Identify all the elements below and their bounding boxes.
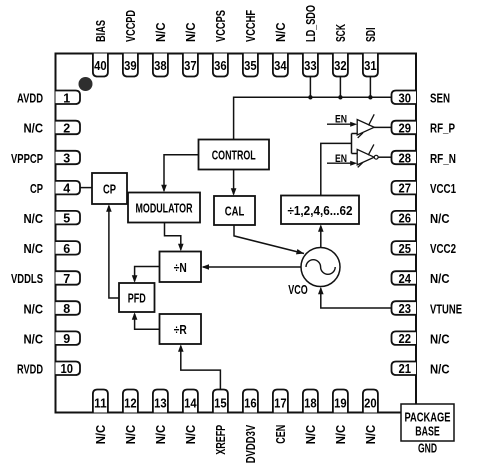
svg-text:RF_N: RF_N bbox=[430, 152, 456, 166]
wire: VCO output to divide-by-N bbox=[202, 264, 302, 270]
pin 5 (N/C) left bbox=[24, 211, 81, 226]
pin 27 (VCC1) right bbox=[392, 181, 457, 196]
pin 7 (VDDLS) left bbox=[11, 271, 80, 286]
svg-text:AVDD: AVDD bbox=[17, 92, 43, 106]
pin 16 (DVDD3V) bottom bbox=[243, 390, 258, 464]
svg-text:VCCPS: VCCPS bbox=[214, 10, 228, 42]
divide-by-N block bbox=[160, 252, 202, 283]
pin 13 (N/C) bottom bbox=[153, 390, 168, 445]
pin 38 (N/C) top bbox=[153, 23, 168, 77]
svg-text:16: 16 bbox=[244, 397, 257, 411]
pin 21 (N/C) right bbox=[392, 362, 450, 377]
pin 10 (RVDD) left bbox=[17, 362, 80, 377]
svg-text:SDI: SDI bbox=[364, 28, 378, 43]
svg-text:3: 3 bbox=[63, 152, 70, 166]
svg-text:RF_P: RF_P bbox=[430, 122, 455, 136]
svg-text:N/C: N/C bbox=[24, 332, 44, 346]
wire: serial bus from pins 33/32/31 to SEN pin 30 bbox=[234, 77, 392, 140]
svg-text:17: 17 bbox=[274, 397, 287, 411]
svg-text:21: 21 bbox=[399, 362, 412, 376]
svg-text:VDDLS: VDDLS bbox=[11, 272, 43, 286]
pin 35 (VCCHF) top bbox=[243, 10, 258, 77]
pin 24 (N/C) right bbox=[392, 271, 450, 286]
svg-text:XREFP: XREFP bbox=[214, 425, 228, 455]
svg-text:CP: CP bbox=[30, 182, 43, 196]
pin 1 indicator dot bbox=[79, 77, 93, 91]
svg-text:SEN: SEN bbox=[430, 92, 450, 106]
pin 1 (AVDD) left bbox=[17, 91, 80, 106]
svg-text:N/C: N/C bbox=[430, 212, 450, 226]
svg-text:N/C: N/C bbox=[94, 425, 108, 445]
svg-text:30: 30 bbox=[399, 91, 412, 105]
svg-text:25: 25 bbox=[399, 242, 412, 256]
svg-text:19: 19 bbox=[334, 397, 347, 411]
svg-text:VPPCP: VPPCP bbox=[11, 152, 43, 166]
svg-text:37: 37 bbox=[184, 59, 197, 73]
wire: divider to RF buffers bbox=[321, 134, 357, 196]
wire: RF_N buffer output to pin 28 bbox=[378, 156, 391, 158]
svg-text:÷R: ÷R bbox=[174, 323, 187, 337]
wire: pin 15 XREFP to divide-by-R bbox=[178, 344, 220, 389]
wire: CAL to VCO bbox=[234, 225, 304, 254]
svg-text:4: 4 bbox=[63, 182, 70, 196]
svg-text:N/C: N/C bbox=[274, 23, 288, 43]
svg-text:VCC1: VCC1 bbox=[430, 182, 456, 196]
output divider block (divide by 1,2,4,6...62) bbox=[281, 196, 359, 225]
svg-text:29: 29 bbox=[399, 121, 412, 135]
pin 22 (N/C) right bbox=[392, 331, 450, 346]
RF_P output buffer (triangle with enable slashes) bbox=[357, 114, 374, 138]
pin 32 (SCK) top bbox=[333, 24, 348, 77]
pin 3 (VPPCP) left bbox=[11, 151, 80, 166]
VCO oscillator circle bbox=[301, 248, 340, 287]
pin 29 (RF_P) right bbox=[392, 121, 456, 136]
svg-text:8: 8 bbox=[63, 302, 70, 316]
svg-text:VCC2: VCC2 bbox=[430, 242, 456, 256]
pin 6 (N/C) left bbox=[24, 241, 81, 256]
wire: pin 4 CP to charge-pump block bbox=[80, 187, 92, 189]
svg-text:20: 20 bbox=[364, 397, 377, 411]
svg-text:N/C: N/C bbox=[364, 425, 378, 445]
svg-text:BASE: BASE bbox=[415, 425, 440, 439]
wire: MODULATOR to divide-by-N bbox=[165, 223, 184, 252]
svg-text:LD_SDO: LD_SDO bbox=[304, 5, 318, 42]
svg-text:N/C: N/C bbox=[430, 332, 450, 346]
wire: pin 23 VTUNE to VCO bbox=[318, 287, 392, 308]
svg-text:RVDD: RVDD bbox=[17, 363, 43, 377]
svg-text:N/C: N/C bbox=[154, 23, 168, 43]
svg-text:BIAS: BIAS bbox=[94, 20, 108, 42]
pin 15 (XREFP) bottom bbox=[213, 390, 228, 455]
pin 39 (VCCPD) top bbox=[123, 10, 138, 77]
svg-text:24: 24 bbox=[399, 272, 412, 286]
control block U-CONTROL bbox=[199, 140, 270, 170]
svg-text:CAL: CAL bbox=[225, 205, 245, 219]
pin 12 (N/C) bottom bbox=[123, 390, 138, 445]
svg-text:PACKAGE: PACKAGE bbox=[405, 411, 451, 425]
svg-text:N/C: N/C bbox=[184, 23, 198, 43]
svg-text:N/C: N/C bbox=[154, 425, 168, 445]
svg-text:14: 14 bbox=[184, 397, 197, 411]
svg-text:40: 40 bbox=[94, 59, 107, 73]
junction dot below pin 33 bbox=[308, 95, 312, 99]
pin 17 (CEN) bottom bbox=[273, 390, 288, 444]
pin 2 (N/C) left bbox=[24, 121, 81, 136]
pin 28 (RF_N) right bbox=[392, 151, 457, 166]
pin 19 (N/C) bottom bbox=[333, 390, 348, 445]
modulator block bbox=[128, 193, 200, 223]
svg-text:VCCPD: VCCPD bbox=[124, 10, 138, 42]
RF_N output buffer (inverting triangle with enable slashes) bbox=[357, 144, 378, 167]
wire: VCO to output divider bbox=[318, 224, 324, 248]
svg-text:12: 12 bbox=[124, 397, 137, 411]
pin 31 (SDI) top bbox=[363, 28, 378, 77]
svg-text:34: 34 bbox=[274, 59, 287, 73]
pin 26 (N/C) right bbox=[392, 211, 450, 226]
svg-text:MODULATOR: MODULATOR bbox=[136, 202, 193, 216]
pin 33 (LD_SDO) top bbox=[303, 5, 318, 77]
junction dot below pin 31 bbox=[368, 95, 372, 99]
GND label of package base bbox=[418, 442, 437, 456]
pin 18 (N/C) bottom bbox=[303, 390, 318, 445]
PACKAGE BASE pad (GND) bbox=[401, 404, 454, 441]
svg-text:38: 38 bbox=[154, 59, 167, 73]
pin 25 (VCC2) right bbox=[392, 241, 457, 256]
charge pump CP bbox=[92, 173, 127, 204]
svg-text:23: 23 bbox=[399, 302, 412, 316]
svg-text:N/C: N/C bbox=[24, 302, 44, 316]
EN enable input of RF_N buffer bbox=[327, 153, 357, 166]
svg-text:GND: GND bbox=[418, 442, 437, 456]
wire: divide-by-R to PFD bbox=[132, 312, 160, 329]
VCO label bbox=[288, 283, 308, 297]
svg-text:15: 15 bbox=[214, 397, 227, 411]
svg-text:N/C: N/C bbox=[184, 425, 198, 445]
pin 30 (SEN) right bbox=[392, 91, 451, 106]
svg-text:6: 6 bbox=[63, 242, 70, 256]
pin 14 (N/C) bottom bbox=[183, 390, 198, 445]
wire: PFD to charge pump CP bbox=[106, 204, 119, 298]
wire: CONTROL to MODULATOR bbox=[161, 155, 198, 193]
svg-text:N/C: N/C bbox=[124, 425, 138, 445]
pin 40 (BIAS) top bbox=[93, 20, 108, 77]
svg-text:31: 31 bbox=[364, 59, 377, 73]
svg-text:PFD: PFD bbox=[128, 292, 146, 306]
svg-text:CONTROL: CONTROL bbox=[212, 149, 256, 163]
svg-text:27: 27 bbox=[399, 182, 412, 196]
svg-text:N/C: N/C bbox=[304, 425, 318, 445]
EN enable input of RF_P buffer bbox=[327, 114, 357, 127]
svg-text:36: 36 bbox=[214, 59, 227, 73]
svg-text:32: 32 bbox=[334, 59, 347, 73]
svg-text:VCO: VCO bbox=[288, 283, 308, 297]
svg-text:CP: CP bbox=[103, 183, 116, 197]
svg-text:N/C: N/C bbox=[430, 363, 450, 377]
pin 8 (N/C) left bbox=[24, 301, 81, 316]
wire: RF_P buffer output to pin 29 bbox=[374, 126, 392, 128]
svg-text:N/C: N/C bbox=[24, 242, 44, 256]
calibration block CAL bbox=[214, 196, 255, 225]
svg-text:CEN: CEN bbox=[274, 425, 288, 444]
svg-text:10: 10 bbox=[61, 362, 74, 376]
svg-text:N/C: N/C bbox=[430, 272, 450, 286]
svg-text:÷1,2,4,6...62: ÷1,2,4,6...62 bbox=[288, 204, 353, 218]
svg-text:26: 26 bbox=[399, 212, 412, 226]
wire: divide-by-N to PFD bbox=[132, 267, 160, 283]
pin 36 (VCCPS) top bbox=[213, 10, 228, 77]
wire: CONTROL to CAL bbox=[231, 170, 237, 196]
pin 23 (VTUNE) right bbox=[392, 301, 463, 316]
svg-text:39: 39 bbox=[124, 59, 137, 73]
svg-text:28: 28 bbox=[399, 152, 412, 166]
svg-text:33: 33 bbox=[304, 59, 317, 73]
chip body outline bbox=[56, 54, 417, 413]
pin 34 (N/C) top bbox=[273, 23, 288, 77]
pin 11 (N/C) bottom bbox=[93, 390, 108, 445]
svg-text:13: 13 bbox=[154, 397, 167, 411]
svg-text:5: 5 bbox=[63, 212, 70, 226]
svg-text:VTUNE: VTUNE bbox=[430, 302, 462, 316]
svg-text:2: 2 bbox=[63, 121, 70, 135]
svg-text:SCK: SCK bbox=[334, 24, 348, 42]
pin 9 (N/C) left bbox=[24, 331, 81, 346]
svg-text:VCCHF: VCCHF bbox=[244, 10, 258, 42]
pin 37 (N/C) top bbox=[183, 23, 198, 77]
phase-frequency detector PFD bbox=[119, 283, 155, 312]
divide-by-R block bbox=[160, 314, 202, 344]
svg-text:N/C: N/C bbox=[334, 425, 348, 445]
svg-text:35: 35 bbox=[244, 59, 257, 73]
svg-text:11: 11 bbox=[94, 397, 107, 411]
svg-text:1: 1 bbox=[63, 91, 70, 105]
svg-text:9: 9 bbox=[63, 332, 70, 346]
junction dot below pin 32 bbox=[338, 95, 342, 99]
svg-text:N/C: N/C bbox=[24, 122, 44, 136]
pin 4 (CP) left bbox=[30, 181, 80, 196]
svg-text:22: 22 bbox=[399, 332, 412, 346]
svg-text:N/C: N/C bbox=[24, 212, 44, 226]
svg-text:÷N: ÷N bbox=[174, 261, 187, 275]
pin 20 (N/C) bottom bbox=[363, 390, 378, 445]
svg-text:DVDD3V: DVDD3V bbox=[244, 424, 258, 463]
svg-text:7: 7 bbox=[63, 272, 70, 286]
svg-text:18: 18 bbox=[304, 397, 317, 411]
